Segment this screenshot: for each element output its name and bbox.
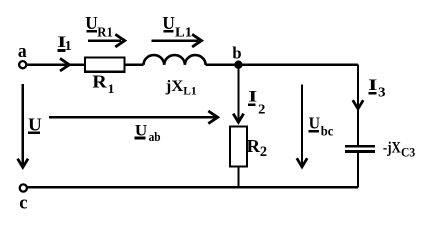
label -jX_C3 — [383, 139, 415, 159]
svg-text:U: U — [85, 13, 98, 33]
wire R2 to bottom — [237, 167, 239, 188]
svg-text:R: R — [92, 72, 108, 92]
wire right branch down — [357, 65, 359, 146]
label U_ab — [134, 122, 160, 144]
voltage arrow U source — [22, 84, 24, 167]
svg-text:c: c — [19, 192, 27, 213]
label U_bc — [308, 114, 333, 140]
svg-text:R1: R1 — [97, 25, 113, 40]
label R1 — [92, 72, 114, 96]
resistor R2 — [230, 127, 247, 167]
label U_R1 — [85, 13, 113, 40]
svg-text:2: 2 — [258, 101, 265, 116]
voltage arrow U_L1 — [151, 39, 198, 41]
voltage arrow U_ab — [49, 116, 217, 118]
svg-text:I: I — [248, 89, 257, 106]
label R2 — [247, 136, 268, 160]
svg-text:R: R — [247, 136, 261, 156]
inductor L1 — [144, 55, 206, 65]
capacitor C3 plate 2 — [345, 150, 375, 153]
svg-text:2: 2 — [260, 144, 267, 160]
svg-text:-jX: -jX — [383, 139, 402, 156]
wire a to R1 — [27, 64, 86, 66]
label I3 — [368, 77, 386, 99]
node b — [234, 60, 242, 68]
svg-text:bc: bc — [321, 124, 334, 139]
svg-text:3: 3 — [378, 84, 386, 99]
svg-text:1: 1 — [65, 39, 72, 54]
svg-text:I: I — [368, 77, 377, 94]
wire C3 to bottom — [357, 153, 359, 188]
svg-text:a: a — [18, 41, 27, 62]
label U_L1 — [162, 13, 192, 40]
label U source — [28, 114, 42, 134]
svg-text:U: U — [309, 114, 320, 133]
svg-text:jX: jX — [165, 78, 184, 95]
svg-text:ab: ab — [149, 130, 161, 144]
label jX_L1 — [165, 78, 197, 97]
wire node b to R2 — [237, 65, 239, 122]
current arrow I2 head — [233, 114, 243, 123]
svg-text:1: 1 — [108, 81, 115, 96]
label I1 — [57, 34, 71, 54]
voltage arrow U_R1 — [88, 39, 121, 41]
terminal c — [20, 184, 27, 191]
svg-text:L1: L1 — [183, 83, 197, 97]
capacitor C3 plate 1 — [345, 145, 375, 148]
current arrow I3 head — [353, 100, 363, 109]
label I2 — [248, 89, 266, 117]
voltage arrow U_bc — [301, 85, 303, 167]
wire R1 to L1 — [125, 64, 144, 66]
current arrow I1 head — [60, 58, 69, 71]
svg-text:C3: C3 — [401, 146, 415, 160]
terminal a — [19, 61, 26, 68]
resistor R1 — [85, 58, 125, 72]
bottom wire — [27, 186, 358, 189]
svg-text:b: b — [232, 43, 241, 62]
svg-text:L1: L1 — [175, 26, 192, 41]
wire L1 to right corner — [206, 64, 358, 66]
